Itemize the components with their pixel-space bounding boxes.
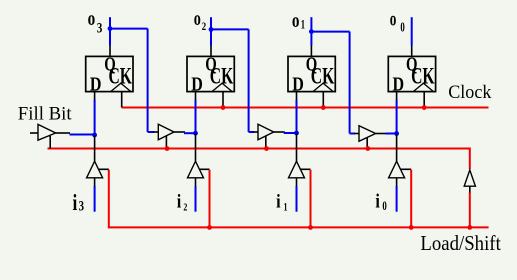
junction: CK0 on Clock net — [422, 105, 427, 110]
U2 D pin stub (black) — [195, 92, 197, 100]
wire: buffer C output (black then blue) to D0 node — [376, 133, 387, 135]
wire: Load/Shift net (red horizontal bus) — [109, 226, 489, 228]
shift buffer C enable stub (black) — [366, 138, 368, 149]
svg-text:3: 3 — [79, 199, 84, 215]
U3 CK pin wire to Clock net — [322, 92, 324, 108]
svg-text:D: D — [292, 75, 304, 96]
wire: o3 horizontal feed (blue) — [110, 28, 148, 30]
tri-state load buffer for i1 (triangle up) — [289, 161, 305, 178]
wire: o1 horizontal feed (blue) — [311, 31, 349, 33]
wire: o1 vertical down-leg (blue) — [349, 32, 351, 134]
junction: load enable on Load/Shift bus — [207, 225, 212, 230]
wire: D3 vertical (blue) down to node — [94, 100, 96, 136]
svg-text:3: 3 — [97, 20, 103, 36]
wire: Fill Bit input stub — [30, 132, 38, 134]
svg-text:CK: CK — [411, 64, 435, 89]
U2 clock edge triangle — [212, 83, 232, 91]
tri-state load buffer for i0 (triangle up) — [389, 161, 405, 178]
wire: i2 input stub below buffer (black then blue) — [195, 178, 197, 187]
wire: o2 elbow into buffer (blue then black) — [249, 131, 254, 133]
wire: load enable vertical (red) to Load/Shift bus — [410, 170, 412, 228]
svg-text:i: i — [177, 192, 182, 213]
junction: CK2 on Clock net — [221, 105, 226, 110]
tri-state load buffer for i3 (triangle up) — [87, 161, 103, 178]
svg-text:1: 1 — [301, 18, 305, 32]
U1 clock edge triangle — [111, 83, 131, 91]
svg-text:i: i — [73, 190, 78, 215]
load buffer i3 enable stub (black) — [99, 168, 109, 170]
svg-text:CK: CK — [210, 64, 234, 89]
svg-text:1: 1 — [284, 202, 288, 214]
svg-text:i: i — [276, 191, 281, 212]
svg-text:2: 2 — [183, 202, 187, 214]
svg-text:CK: CK — [109, 64, 133, 89]
svg-text:o: o — [194, 8, 201, 30]
svg-text:D: D — [393, 75, 405, 96]
tri-state shift buffer B (o2 to D1) — [258, 124, 274, 140]
svg-text:o: o — [88, 8, 96, 30]
node D0 junction dot (blue) — [394, 131, 399, 136]
buffer U5: Fill Bit driver (triangle right) — [38, 124, 56, 140]
wire: i3 input stub below buffer (black then blue) — [94, 178, 96, 187]
wire: o2 horizontal feed (blue) — [211, 28, 249, 30]
U2 CK pin wire to Clock net — [222, 92, 224, 108]
wire: D1 node down to load buffer output (black) — [296, 133, 298, 161]
wire: buffer A output (black then blue) to D2 node — [174, 131, 185, 133]
D flip-flop U1 (bit 3) box — [86, 56, 133, 91]
wire: buffer B output (black then blue) to D1 node — [274, 131, 285, 133]
wire: o3 elbow into buffer (blue then black) — [148, 131, 155, 133]
U3 D pin stub (black) — [296, 92, 298, 100]
svg-text:Fill Bit: Fill Bit — [18, 104, 73, 125]
wire: D2 node down to load buffer output (black) — [195, 133, 197, 161]
wire: Load/Shift left vertical (stage 1 load buffer enable) — [108, 170, 110, 229]
wire: i0 input stub below buffer (black then blue) — [396, 178, 398, 187]
svg-text:D: D — [90, 75, 102, 96]
junction: load enable on Load/Shift bus — [308, 225, 313, 230]
junction: U6 input on Load/Shift bus — [467, 225, 472, 230]
wire: U6 input stub (black then red) from Load/Shift bus — [469, 186, 471, 193]
U1 Q pin stub (black) — [109, 45, 111, 56]
wire: Fill Bit buffer output (black then blue) to D3 node — [56, 132, 70, 134]
svg-text:0: 0 — [400, 20, 405, 35]
node D1 junction dot (blue) — [294, 131, 299, 136]
wire: load enable vertical (red) to Load/Shift bus — [209, 170, 211, 228]
wire: shift-enable net (red horizontal) — [48, 148, 470, 150]
node o1 junction dot — [309, 29, 314, 34]
svg-text:CK: CK — [311, 64, 335, 89]
wire: o2 vertical down-leg (blue) — [248, 29, 250, 132]
shift buffer B enable stub (black) — [265, 136, 267, 149]
D flip-flop U2 (bit 2) box — [187, 56, 234, 91]
svg-text:Clock: Clock — [448, 82, 492, 103]
U3 Q pin stub (black) — [310, 45, 312, 56]
U2 Q pin stub (black) — [210, 45, 212, 56]
svg-text:D: D — [191, 75, 203, 96]
buffer U6: Load/Shift to shift-enable (triangle up) — [464, 170, 475, 186]
D flip-flop U3 (bit 1) box — [288, 56, 335, 91]
U4 Q pin stub (black) — [411, 45, 413, 56]
junction: CK1 on Clock net — [321, 105, 326, 110]
node D3 junction dot (blue) — [92, 133, 97, 138]
svg-text:i: i — [375, 191, 380, 212]
svg-text:0: 0 — [382, 199, 386, 213]
load buffer i2 enable stub (black) — [200, 168, 210, 170]
wire: Q0 vertical (blue) up to o0 — [411, 17, 413, 45]
wire: i1 input stub below buffer (black then blue) — [296, 178, 298, 187]
U1 D pin stub (black) — [94, 92, 96, 100]
wire: Q3 vertical (blue) up to o3 — [109, 17, 111, 45]
wire: shift-enable right vertical drop to buffer U6 — [469, 148, 471, 170]
node o3 junction dot — [108, 26, 113, 31]
svg-text:Load/Shift: Load/Shift — [420, 231, 500, 255]
wire: o3 vertical down-leg (blue) — [147, 29, 149, 132]
tri-state load buffer for i2 (triangle up) — [188, 161, 204, 178]
junction: load enable on Load/Shift bus — [409, 225, 414, 230]
junction: buffer A enable on shift-enable net — [165, 146, 170, 151]
wire: Q1 vertical (blue) up to o1 — [310, 17, 312, 45]
tri-state shift buffer C (o1 to D0) — [359, 126, 376, 142]
U1 CK pin wire to Clock net — [121, 92, 123, 108]
wire: D2 vertical (blue) down to node — [195, 100, 197, 134]
svg-text:o: o — [390, 9, 397, 31]
wire: D3 node down to load buffer output (black) — [94, 135, 96, 161]
wire: D0 vertical (blue) down to node — [396, 100, 398, 134]
wire: o1 elbow into buffer (blue then black) — [350, 133, 355, 135]
shift buffer A enable stub (black) — [165, 136, 167, 149]
wire: load enable vertical (red) to Load/Shift bus — [310, 170, 312, 228]
junction: buffer C enable on shift-enable net — [365, 146, 370, 151]
wire: Q2 vertical (blue) up to o2 — [210, 17, 212, 45]
node o2 junction dot — [209, 27, 214, 32]
load buffer i1 enable stub (black) — [301, 168, 311, 170]
wire: Clock net (red horizontal bus) — [122, 107, 489, 109]
load buffer i0 enable stub (black) — [401, 168, 411, 170]
buffer U5 enable stub down to shift-enable net — [49, 136, 51, 149]
U4 clock edge triangle — [413, 83, 433, 91]
svg-text:2: 2 — [202, 19, 206, 33]
node D2 junction dot (blue) — [193, 131, 198, 136]
svg-text:o: o — [292, 10, 300, 32]
junction: buffer B enable on shift-enable net — [264, 146, 269, 151]
wire: D0 node down to load buffer output (black) — [396, 134, 398, 162]
U4 D pin stub (black) — [396, 92, 398, 100]
tri-state shift buffer A (o3 to D2) — [158, 124, 174, 140]
U3 clock edge triangle — [313, 83, 333, 91]
U4 CK pin wire to Clock net — [423, 92, 425, 108]
wire: D1 vertical (blue) down to node — [296, 100, 298, 134]
D flip-flop U4 (bit 0) box — [388, 56, 435, 91]
